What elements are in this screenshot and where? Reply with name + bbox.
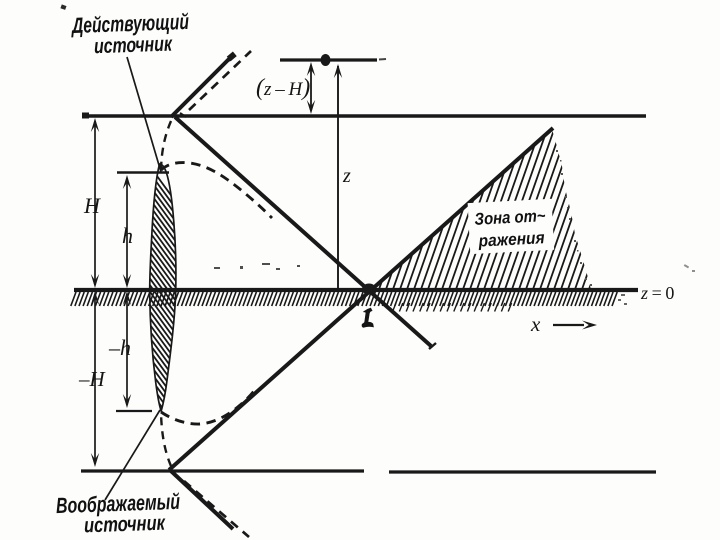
image ray diagonal d2 (lower-left to upper-right)	[169, 128, 553, 470]
hatched lens region outline	[150, 164, 176, 411]
lens hatching	[138, 150, 192, 488]
z axis vertical line	[337, 66, 339, 290]
dashed dip curve under lens bottom ascending along d2	[161, 391, 254, 424]
speck far right	[684, 264, 695, 272]
lower boundary line z=-H (left segment)	[81, 469, 364, 472]
reflected ray diagonal d1 (upper-left to lower-right)	[175, 117, 431, 346]
x axis arrow	[553, 324, 584, 326]
svg-text:источник: источник	[94, 33, 174, 59]
faint dot row right of lens	[214, 263, 300, 270]
dimension arrow (z-H)	[310, 66, 312, 111]
crossing point dot	[362, 284, 376, 295]
observation point P dot	[321, 54, 331, 66]
observation level line at height z	[280, 58, 377, 61]
dimension arrow H	[94, 121, 96, 285]
svg-text:x: x	[530, 312, 541, 336]
bottom vertex dashed ray	[184, 481, 249, 537]
svg-text:Зона от~: Зона от~	[474, 206, 546, 229]
d1 end tick	[429, 343, 436, 349]
extra hatch tails under reflection zone	[393, 303, 512, 312]
reflection zone label background	[468, 199, 555, 254]
svg-text:ражения: ражения	[477, 228, 545, 250]
leader line from imaginary source label to lens bottom	[105, 410, 160, 500]
svg-text:–h: –h	[108, 335, 131, 360]
tick at top of h (height of lens top)	[117, 171, 169, 174]
svg-text:источник: источник	[84, 512, 167, 538]
reflection zone hatched triangle	[300, 124, 654, 295]
hatch fade dots at right end of strip	[618, 294, 627, 305]
svg-text:h: h	[122, 223, 133, 248]
tick on boundary right of top vertex	[180, 113, 186, 117]
dashed curve from top vertex to lens top	[161, 121, 171, 170]
svg-text:z = 0: z = 0	[640, 283, 674, 303]
svg-text:H: H	[83, 193, 101, 218]
dimension arrow -h	[126, 294, 128, 405]
dimension arrow -H	[94, 294, 96, 464]
ground line z=0	[74, 288, 638, 292]
tick at bottom of -h	[116, 410, 152, 412]
scan speck right of source label	[224, 58, 233, 63]
dimension arrow h	[126, 178, 128, 285]
upper boundary line z=H	[84, 114, 646, 118]
lower boundary line z=-H (right segment)	[389, 470, 656, 473]
fuzzy right edge dots of reflection zone	[556, 150, 592, 286]
scan speck near top text	[60, 4, 66, 9]
dashed curve from bottom vertex to lens bottom	[161, 412, 171, 466]
dashed hump curve over lens top descending along d1	[161, 163, 272, 218]
label Zona ot-razheniya	[474, 206, 547, 251]
fuzzy dash extension	[379, 58, 386, 61]
svg-text:–H: –H	[78, 367, 107, 391]
bottom vertex solid ray	[171, 471, 233, 529]
leader line from acting source label to lens top	[127, 57, 161, 172]
svg-text:(z – H): (z – H)	[256, 75, 310, 101]
svg-text:z: z	[342, 165, 351, 187]
top vertex solid ray	[171, 57, 231, 117]
top vertex dashed ray	[189, 51, 251, 110]
label l below crossing point	[362, 309, 373, 328]
ground hatching strip	[71, 292, 617, 306]
